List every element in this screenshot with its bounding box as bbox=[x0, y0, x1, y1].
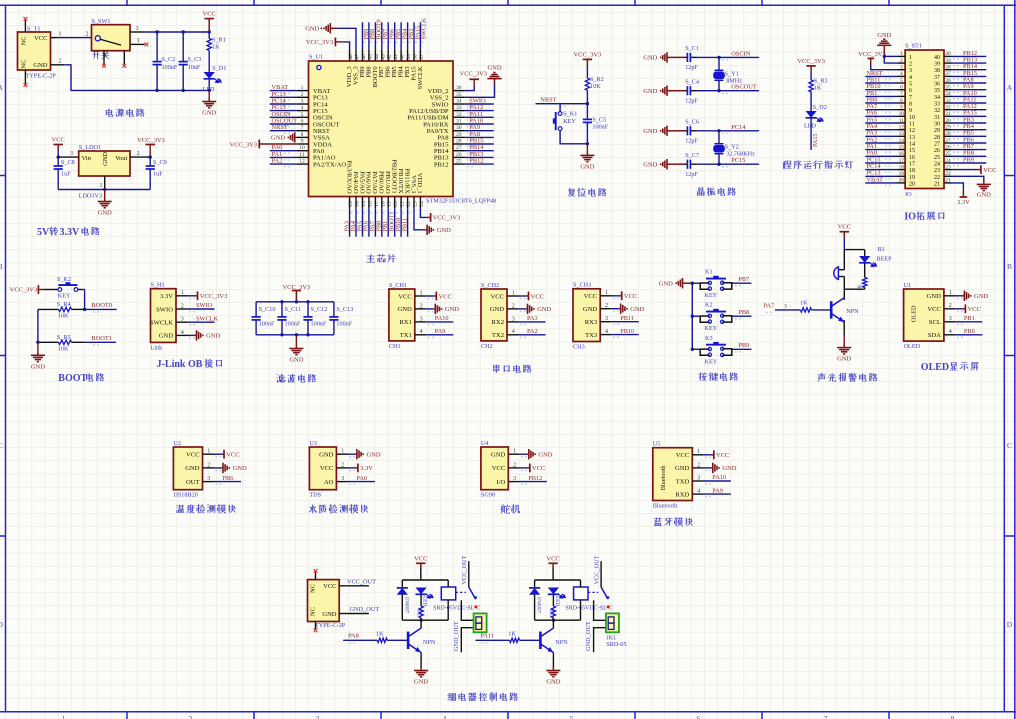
wire net PA4 to ST1 bbox=[865, 129, 897, 131]
svg-text:GND: GND bbox=[583, 306, 598, 313]
svg-text:TX1: TX1 bbox=[400, 332, 412, 339]
wire net PB14 from U1 bbox=[465, 150, 494, 152]
svg-text:VCC: VCC bbox=[414, 555, 427, 562]
junction bbox=[280, 300, 283, 303]
svg-text:S_C9: S_C9 bbox=[153, 159, 167, 166]
title 滤波电路 bbox=[277, 374, 316, 383]
svg-text:GND: GND bbox=[319, 452, 334, 459]
wire net PA11 bbox=[476, 639, 510, 641]
wire net SWCLK to U1 top bbox=[419, 22, 421, 49]
wire net PB14 from ST1 bbox=[952, 69, 987, 71]
svg-text:29: 29 bbox=[934, 128, 940, 134]
svg-text:S_K2: S_K2 bbox=[57, 276, 71, 283]
svg-text:26: 26 bbox=[456, 152, 462, 158]
svg-text:PB12: PB12 bbox=[469, 158, 483, 165]
svg-text:12pF: 12pF bbox=[685, 97, 698, 104]
svg-text:B: B bbox=[1007, 262, 1012, 271]
svg-text:22: 22 bbox=[406, 201, 412, 207]
svg-text:4: 4 bbox=[697, 489, 700, 495]
svg-text:9: 9 bbox=[900, 104, 903, 110]
svg-text:VCC_3V3: VCC_3V3 bbox=[460, 71, 487, 78]
relay coil SRD-05VDC-SL-C bbox=[565, 580, 612, 620]
junction bbox=[306, 300, 309, 303]
wire relay top rail bbox=[535, 579, 581, 581]
wire OSCIN bbox=[697, 56, 759, 58]
svg-text:14: 14 bbox=[355, 201, 361, 207]
wire net PB12 from ST1 bbox=[952, 55, 987, 57]
LED (relay) bbox=[548, 588, 566, 607]
power VCC_3V3 (LDO output) bbox=[137, 137, 165, 157]
svg-text:BOOT1: BOOT1 bbox=[91, 335, 112, 342]
svg-text:3: 3 bbox=[605, 316, 608, 322]
svg-text:VDD_1: VDD_1 bbox=[416, 173, 423, 194]
svg-text:SWCLK: SWCLK bbox=[150, 320, 173, 327]
wire net PB15 from U1 bbox=[465, 143, 494, 145]
title IO拓展口 bbox=[904, 212, 944, 223]
svg-text:PB1/AO: PB1/AO bbox=[384, 171, 391, 194]
svg-text:VCC_OUT: VCC_OUT bbox=[461, 555, 468, 584]
ground GND (U4 pin 1) bbox=[520, 449, 553, 459]
wire net PA10 from S_CH1 pin 3 bbox=[426, 321, 453, 323]
wire net PA0 from U3 pin 3 bbox=[348, 481, 375, 483]
svg-text:2: 2 bbox=[181, 303, 184, 309]
svg-text:38: 38 bbox=[934, 68, 940, 74]
svg-text:C: C bbox=[0, 441, 3, 450]
svg-text:2: 2 bbox=[137, 151, 140, 157]
svg-text:GND: GND bbox=[977, 192, 991, 199]
svg-text:12: 12 bbox=[299, 159, 305, 165]
svg-text:9: 9 bbox=[909, 108, 912, 114]
power VCC_3V3 (VDD_2 pin 36) bbox=[460, 71, 487, 91]
svg-text:SDA: SDA bbox=[928, 332, 941, 339]
ground GND (VSS_3 pin 47) bbox=[305, 23, 356, 49]
svg-text:S_C12: S_C12 bbox=[311, 306, 328, 313]
wire net PB12 from U1 bbox=[465, 163, 494, 165]
svg-text:100nF: 100nF bbox=[592, 124, 608, 131]
ground GND (S_CH1 pin 2) bbox=[426, 304, 459, 314]
svg-text:31: 31 bbox=[945, 111, 951, 117]
svg-text:PA8: PA8 bbox=[348, 633, 359, 640]
wire emitter to GND bbox=[843, 322, 845, 336]
svg-text:48: 48 bbox=[348, 54, 354, 60]
wire net VBAT to U1 bbox=[270, 90, 297, 92]
svg-text:PA2: PA2 bbox=[272, 158, 283, 165]
svg-text:39: 39 bbox=[934, 62, 940, 68]
title 蓝牙模块 bbox=[654, 517, 693, 526]
wire OSCOUT bbox=[697, 90, 759, 92]
junction bbox=[208, 89, 211, 92]
wire net PA9 from U1 bbox=[465, 130, 494, 132]
wire net PB12 from U4 pin 3 bbox=[520, 481, 547, 483]
svg-text:5: 5 bbox=[301, 112, 304, 118]
svg-text:4: 4 bbox=[909, 75, 912, 81]
svg-text:GND: GND bbox=[206, 333, 220, 340]
svg-text:K1: K1 bbox=[705, 269, 713, 276]
svg-text:16: 16 bbox=[367, 201, 373, 207]
svg-text:GND: GND bbox=[643, 162, 657, 169]
svg-text:7: 7 bbox=[900, 91, 903, 97]
svg-text:PB11/RX: PB11/RX bbox=[403, 168, 410, 194]
wire BOOT0 bbox=[85, 308, 117, 310]
title BOOT电路 bbox=[58, 373, 104, 384]
wire net PC14 to ST1 bbox=[865, 169, 897, 171]
wire net SWIO from S_H1 pin 2 bbox=[188, 308, 215, 310]
svg-text:17: 17 bbox=[909, 161, 915, 167]
ground GND bbox=[546, 666, 560, 686]
svg-text:38: 38 bbox=[945, 65, 951, 71]
svg-text:VCC: VCC bbox=[532, 465, 545, 472]
svg-text:GND: GND bbox=[367, 452, 381, 459]
svg-text:4: 4 bbox=[512, 329, 515, 335]
power VCC (relay) bbox=[414, 555, 427, 580]
transistor NPN (relay) bbox=[408, 628, 436, 652]
junction bbox=[57, 155, 60, 158]
svg-text:2: 2 bbox=[909, 62, 912, 68]
svg-text:1: 1 bbox=[181, 290, 184, 296]
ground GND (VSS_2 pin 35) bbox=[465, 64, 502, 97]
svg-text:13: 13 bbox=[899, 131, 905, 137]
svg-text:SWCLK: SWCLK bbox=[421, 17, 428, 39]
svg-text:3: 3 bbox=[316, 714, 320, 719]
svg-text:GND: GND bbox=[546, 679, 560, 686]
relay output socket bbox=[474, 613, 487, 632]
svg-text:VCC_OUT: VCC_OUT bbox=[594, 555, 601, 584]
capacitor S_C4 12pF bbox=[669, 78, 699, 104]
svg-text:1K: 1K bbox=[416, 610, 422, 617]
svg-text:2: 2 bbox=[605, 303, 608, 309]
svg-text:GND: GND bbox=[675, 465, 690, 472]
wire net PB8 to U1 top bbox=[368, 22, 370, 49]
svg-text:15: 15 bbox=[899, 144, 905, 150]
svg-text:2: 2 bbox=[420, 303, 423, 309]
wire net SWIO from U1 bbox=[465, 103, 494, 105]
resistor 1K (alarm LED) bbox=[857, 278, 867, 292]
svg-text:PA15: PA15 bbox=[812, 133, 819, 147]
junction bbox=[155, 89, 158, 92]
svg-text:3: 3 bbox=[301, 98, 304, 104]
svg-text:PA7: PA7 bbox=[764, 303, 775, 310]
wire net OSCOUT to U1 bbox=[270, 123, 297, 125]
svg-text:S_C5: S_C5 bbox=[592, 117, 606, 124]
svg-text:GND_OUT: GND_OUT bbox=[350, 606, 380, 613]
diode 1N4007 bbox=[397, 580, 410, 620]
svg-text:30: 30 bbox=[945, 118, 951, 124]
svg-text:32: 32 bbox=[934, 108, 940, 114]
power VCC (S_CH3 pin 1) bbox=[612, 291, 638, 300]
wire net PA1 to U1 bbox=[270, 156, 297, 158]
power 3.3V (U3 pin 2) bbox=[348, 464, 373, 473]
svg-text:1: 1 bbox=[512, 290, 515, 296]
wire net PB15 from ST1 bbox=[952, 75, 987, 77]
junction bbox=[295, 333, 298, 336]
svg-text:34: 34 bbox=[456, 98, 462, 104]
resistor S_R3 1K bbox=[809, 78, 828, 112]
svg-text:STM32F103C8T6_LQFP48: STM32F103C8T6_LQFP48 bbox=[426, 198, 496, 205]
svg-text:VCC: VCC bbox=[716, 452, 729, 459]
svg-text:GND: GND bbox=[877, 32, 891, 39]
capacitor S_C1 12pF bbox=[669, 45, 699, 71]
wire K2 to BOOT0 node bbox=[78, 289, 85, 291]
svg-text:8: 8 bbox=[301, 132, 304, 138]
svg-text:GND: GND bbox=[974, 293, 988, 300]
svg-text:KEY: KEY bbox=[705, 292, 718, 299]
svg-text:11: 11 bbox=[909, 122, 915, 128]
svg-text:44: 44 bbox=[374, 54, 380, 60]
module U3 (TDS) bbox=[309, 440, 348, 499]
svg-text:VCC: VCC bbox=[927, 306, 941, 313]
svg-text:27: 27 bbox=[934, 141, 940, 147]
svg-text:10: 10 bbox=[299, 145, 305, 151]
wire NRST net bbox=[536, 103, 588, 105]
svg-text:18: 18 bbox=[899, 164, 905, 170]
power VCC (U1 pin 2) bbox=[955, 304, 981, 313]
wire GND_OUT to socket pin 2 bbox=[453, 621, 474, 652]
svg-text:NRST: NRST bbox=[272, 124, 288, 131]
svg-text:VCC: VCC bbox=[968, 306, 981, 313]
svg-text:35: 35 bbox=[456, 92, 462, 98]
svg-text:3: 3 bbox=[136, 26, 139, 32]
capacitor S_C11 100nF bbox=[277, 302, 301, 335]
junction bbox=[306, 333, 309, 336]
svg-text:6: 6 bbox=[697, 714, 701, 719]
wire net PB10 to ST1 bbox=[865, 89, 897, 91]
svg-text:U1: U1 bbox=[904, 282, 912, 289]
svg-text:GND: GND bbox=[233, 465, 247, 472]
power VCC_3V3 (VDD_1 pin 24) bbox=[420, 208, 460, 222]
resistor 1K (relay LED) bbox=[416, 606, 424, 620]
resistor S_R2 10K bbox=[585, 76, 604, 103]
wire relay top rail bbox=[402, 579, 448, 581]
svg-text:GND: GND bbox=[537, 306, 551, 313]
wire K3 to rail bbox=[692, 348, 700, 350]
title 程序运行指示灯 bbox=[783, 160, 854, 169]
svg-text:3: 3 bbox=[181, 317, 184, 323]
junction bbox=[717, 89, 720, 92]
svg-text:2: 2 bbox=[512, 303, 515, 309]
svg-text:6: 6 bbox=[900, 85, 903, 91]
svg-text:U4: U4 bbox=[481, 440, 489, 447]
svg-text:NPN: NPN bbox=[555, 639, 568, 646]
svg-text:AO: AO bbox=[324, 479, 334, 486]
svg-text:VCC: VCC bbox=[490, 293, 504, 300]
wire net BOOT1 from U1 bottom bbox=[394, 208, 396, 236]
svg-text:12: 12 bbox=[899, 124, 905, 130]
svg-text:VCC: VCC bbox=[226, 452, 239, 459]
svg-text:TX3: TX3 bbox=[585, 332, 598, 339]
svg-text:1: 1 bbox=[697, 449, 700, 455]
wire to socket pin 1 bbox=[461, 600, 473, 620]
junction bbox=[717, 129, 720, 132]
wire VCC_OUT bbox=[346, 585, 369, 587]
capacitor S_C10 100nF bbox=[252, 302, 276, 335]
svg-text:1K: 1K bbox=[857, 284, 863, 291]
svg-text:SRD-05: SRD-05 bbox=[606, 641, 626, 648]
svg-text:22: 22 bbox=[934, 175, 940, 181]
svg-text:Vin: Vin bbox=[82, 155, 92, 162]
svg-text:12pF: 12pF bbox=[685, 171, 698, 178]
wire net PB13 from U1 bbox=[465, 156, 494, 158]
junction bbox=[586, 102, 589, 105]
wire K1 to rail bbox=[692, 282, 700, 284]
svg-text:3: 3 bbox=[512, 316, 515, 322]
svg-text:5: 5 bbox=[570, 714, 574, 719]
svg-text:VCC_3V3: VCC_3V3 bbox=[200, 293, 228, 300]
svg-text:45: 45 bbox=[367, 54, 373, 60]
svg-text:S_C1: S_C1 bbox=[685, 45, 699, 52]
wire net SWCLK from S_H1 pin 3 bbox=[188, 321, 215, 323]
wire T1 GND to bottom rail bbox=[64, 65, 209, 91]
svg-text:GND: GND bbox=[643, 128, 657, 135]
svg-text:VCC: VCC bbox=[531, 293, 544, 300]
junction bbox=[208, 30, 211, 33]
wire net PC14 to U1 bbox=[270, 103, 297, 105]
capacitor S_C8 1uF bbox=[54, 157, 75, 189]
wire net PA6 to ST1 bbox=[865, 115, 897, 117]
svg-text:D: D bbox=[1007, 620, 1013, 629]
svg-text:PA7/AO: PA7/AO bbox=[371, 171, 378, 194]
svg-text:Bluetooth: Bluetooth bbox=[653, 503, 678, 510]
power VCC_3V3 (VDDA pin 9) bbox=[230, 140, 297, 149]
svg-text:J-Link OB: J-Link OB bbox=[157, 359, 203, 370]
wire PA7 base bbox=[775, 309, 801, 311]
wire net PB7 to U1 top bbox=[381, 22, 383, 49]
svg-text:S_R2: S_R2 bbox=[590, 76, 604, 83]
svg-text:33: 33 bbox=[934, 102, 940, 108]
svg-text:GND: GND bbox=[837, 356, 851, 363]
relay coil SRD-05VDC-SL-C bbox=[433, 580, 480, 620]
svg-text:30: 30 bbox=[456, 125, 462, 131]
svg-text:16: 16 bbox=[899, 151, 905, 157]
resistor S_R1 1K bbox=[207, 32, 226, 72]
svg-text:29: 29 bbox=[456, 132, 462, 138]
ground GND bbox=[643, 52, 669, 62]
svg-text:PB10/TX: PB10/TX bbox=[397, 168, 404, 194]
power VCC_3V3 (ST1 pin 3) bbox=[858, 51, 897, 69]
LED S_D2 bbox=[804, 104, 827, 130]
svg-text:3: 3 bbox=[341, 476, 344, 482]
svg-text:1: 1 bbox=[420, 290, 423, 296]
wire net BOOT0 to U1 top bbox=[374, 22, 376, 49]
svg-text:OSCOUT: OSCOUT bbox=[731, 84, 757, 91]
svg-text:1K: 1K bbox=[508, 631, 516, 638]
svg-text:1uF: 1uF bbox=[153, 171, 163, 178]
svg-text:4: 4 bbox=[301, 105, 304, 111]
svg-text:2: 2 bbox=[86, 31, 89, 37]
svg-text:GND: GND bbox=[271, 135, 285, 142]
junction bbox=[586, 142, 589, 145]
svg-text:Link: Link bbox=[151, 344, 164, 351]
svg-text:GND: GND bbox=[98, 210, 112, 217]
wire net PA7 from U1 bottom bbox=[374, 208, 376, 236]
svg-text:1: 1 bbox=[62, 714, 66, 719]
wire net PA2 to U1 bbox=[270, 163, 297, 165]
ground GND (VSS_1 pin 23) bbox=[414, 208, 451, 235]
svg-text:28: 28 bbox=[456, 139, 462, 145]
svg-text:1: 1 bbox=[909, 55, 912, 61]
svg-text:S_SW1: S_SW1 bbox=[92, 18, 111, 25]
junction bbox=[155, 30, 158, 33]
svg-text:GND: GND bbox=[580, 163, 594, 170]
power VCC_3V3 (reset) bbox=[573, 51, 601, 78]
junction bbox=[552, 619, 555, 622]
svg-text:100nF: 100nF bbox=[311, 321, 327, 328]
svg-text:VCC: VCC bbox=[323, 583, 336, 590]
svg-text:27: 27 bbox=[456, 145, 462, 151]
svg-text:GND: GND bbox=[643, 88, 657, 95]
svg-text:12: 12 bbox=[909, 128, 915, 134]
svg-text:PB0/AO: PB0/AO bbox=[378, 171, 385, 194]
connector S_T1 TYPE-C-2P bbox=[18, 17, 65, 87]
svg-text:GND: GND bbox=[33, 62, 47, 69]
svg-text:VCC_3V3: VCC_3V3 bbox=[230, 141, 257, 148]
svg-text:VCC_3V3: VCC_3V3 bbox=[137, 137, 165, 144]
svg-text:1: 1 bbox=[341, 449, 344, 455]
svg-text:PA9: PA9 bbox=[435, 328, 446, 335]
svg-text:CH2: CH2 bbox=[481, 343, 493, 350]
ground GND bbox=[289, 335, 303, 364]
svg-text:10K: 10K bbox=[590, 83, 601, 90]
ground GND bbox=[580, 144, 594, 171]
svg-text:GND: GND bbox=[538, 452, 552, 459]
svg-text:4: 4 bbox=[181, 330, 184, 336]
wire net PA10 from ST1 bbox=[952, 95, 987, 97]
svg-text:S_R5: S_R5 bbox=[57, 334, 71, 341]
wire net PC13 to U1 bbox=[270, 96, 297, 98]
svg-text:36: 36 bbox=[945, 78, 951, 84]
svg-text:VCC: VCC bbox=[983, 167, 996, 174]
wire net PA11 from U1 bbox=[465, 116, 494, 118]
wire net PB0 from U1 pin 4 bbox=[955, 334, 982, 336]
svg-text:VCC: VCC bbox=[676, 452, 690, 459]
junction bbox=[691, 315, 694, 318]
svg-text:SWCLK: SWCLK bbox=[196, 315, 218, 322]
wire net PB8 from ST1 bbox=[952, 155, 987, 157]
wire net PB6 to U1 top bbox=[387, 22, 389, 49]
svg-text:34: 34 bbox=[945, 91, 951, 97]
svg-text:14: 14 bbox=[909, 141, 915, 147]
svg-text:GND: GND bbox=[31, 363, 45, 370]
svg-text:39: 39 bbox=[406, 54, 412, 60]
wire net PA10 from U5 pin 3 bbox=[704, 480, 731, 482]
title 复位电路 bbox=[568, 188, 607, 197]
svg-text:10: 10 bbox=[909, 115, 915, 121]
svg-text:GND: GND bbox=[185, 465, 200, 472]
wire net PB10 from U1 bottom bbox=[400, 208, 402, 236]
wire net PA4 from U1 bottom bbox=[355, 208, 357, 236]
wire net VBAT to ST1 bbox=[865, 182, 897, 184]
wire filter top rail bbox=[256, 301, 334, 303]
svg-text:GND: GND bbox=[437, 227, 451, 234]
svg-text:PA9: PA9 bbox=[712, 487, 723, 494]
svg-text:19: 19 bbox=[909, 175, 915, 181]
capacitor S_C12 100nF bbox=[303, 302, 327, 335]
junction bbox=[691, 282, 694, 285]
svg-text:34: 34 bbox=[934, 95, 940, 101]
svg-text:S_R3: S_R3 bbox=[814, 78, 828, 85]
svg-text:25: 25 bbox=[456, 159, 462, 165]
svg-text:PA6/AO: PA6/AO bbox=[365, 171, 372, 194]
svg-text:GND: GND bbox=[927, 293, 942, 300]
svg-text:KEY: KEY bbox=[705, 325, 718, 332]
svg-text:LED: LED bbox=[554, 596, 560, 606]
ground GND bbox=[643, 159, 669, 169]
svg-text:SRD-05VDC-SL-C: SRD-05VDC-SL-C bbox=[433, 606, 480, 612]
svg-text:VCC: VCC bbox=[52, 137, 65, 144]
wire alarm top node bbox=[844, 249, 864, 251]
LED (relay) bbox=[416, 588, 434, 607]
capacitor S_C6 12pF bbox=[669, 118, 699, 144]
ground GND (ST1 pins 1,2) bbox=[877, 32, 897, 63]
